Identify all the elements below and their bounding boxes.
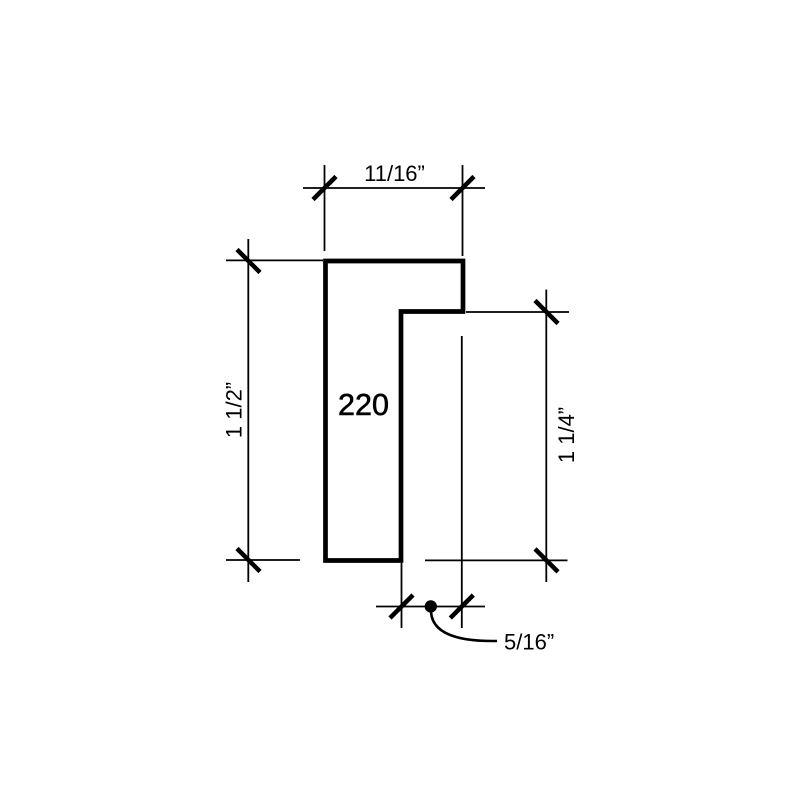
dimension 1 1/2: top tick	[237, 250, 260, 273]
dimension 1 1/2: bottom tick	[237, 549, 260, 572]
moulding profile 220 outline	[326, 261, 464, 561]
dimension 11/16: right tick	[451, 177, 474, 200]
dimension 5/16: right extension line (centerline)	[461, 336, 463, 628]
svg-text:1 1/2”: 1 1/2”	[221, 382, 246, 438]
svg-text:11/16”: 11/16”	[364, 161, 425, 186]
dimension 5/16: reference dot	[425, 600, 437, 612]
dimension 1 1/4: bottom extension line	[425, 559, 568, 561]
dimension 11/16: right extension line	[462, 165, 464, 256]
dimension 5/16 bottom: dimension line	[376, 606, 485, 608]
dimension 1 1/2: top extension line	[226, 259, 323, 261]
svg-text:5/16”: 5/16”	[504, 630, 554, 655]
dimension 5/16: leader curve	[431, 612, 497, 641]
dimension 5/16: left tick	[390, 595, 413, 618]
dimension 5/16: right tick	[450, 595, 473, 618]
dimension 1 1/4: top tick	[535, 301, 558, 324]
svg-text:1 1/4”: 1 1/4”	[554, 407, 579, 463]
dimension 1 1/4: top extension line	[466, 311, 569, 313]
dimension 1 1/2 left: dimension line	[247, 239, 249, 582]
dimension 11/16: left tick	[313, 177, 336, 200]
dimension 11/16: left extension line	[324, 165, 326, 251]
dimension 1 1/4: bottom tick	[535, 549, 558, 572]
dimension 1 1/4 right: dimension line	[545, 290, 547, 582]
dimension 1 1/2: bottom extension line	[226, 559, 300, 561]
svg-text:220: 220	[338, 388, 389, 422]
dimension 5/16: left extension line	[401, 563, 403, 628]
dimension 11/16 top: dimension line	[303, 187, 485, 189]
